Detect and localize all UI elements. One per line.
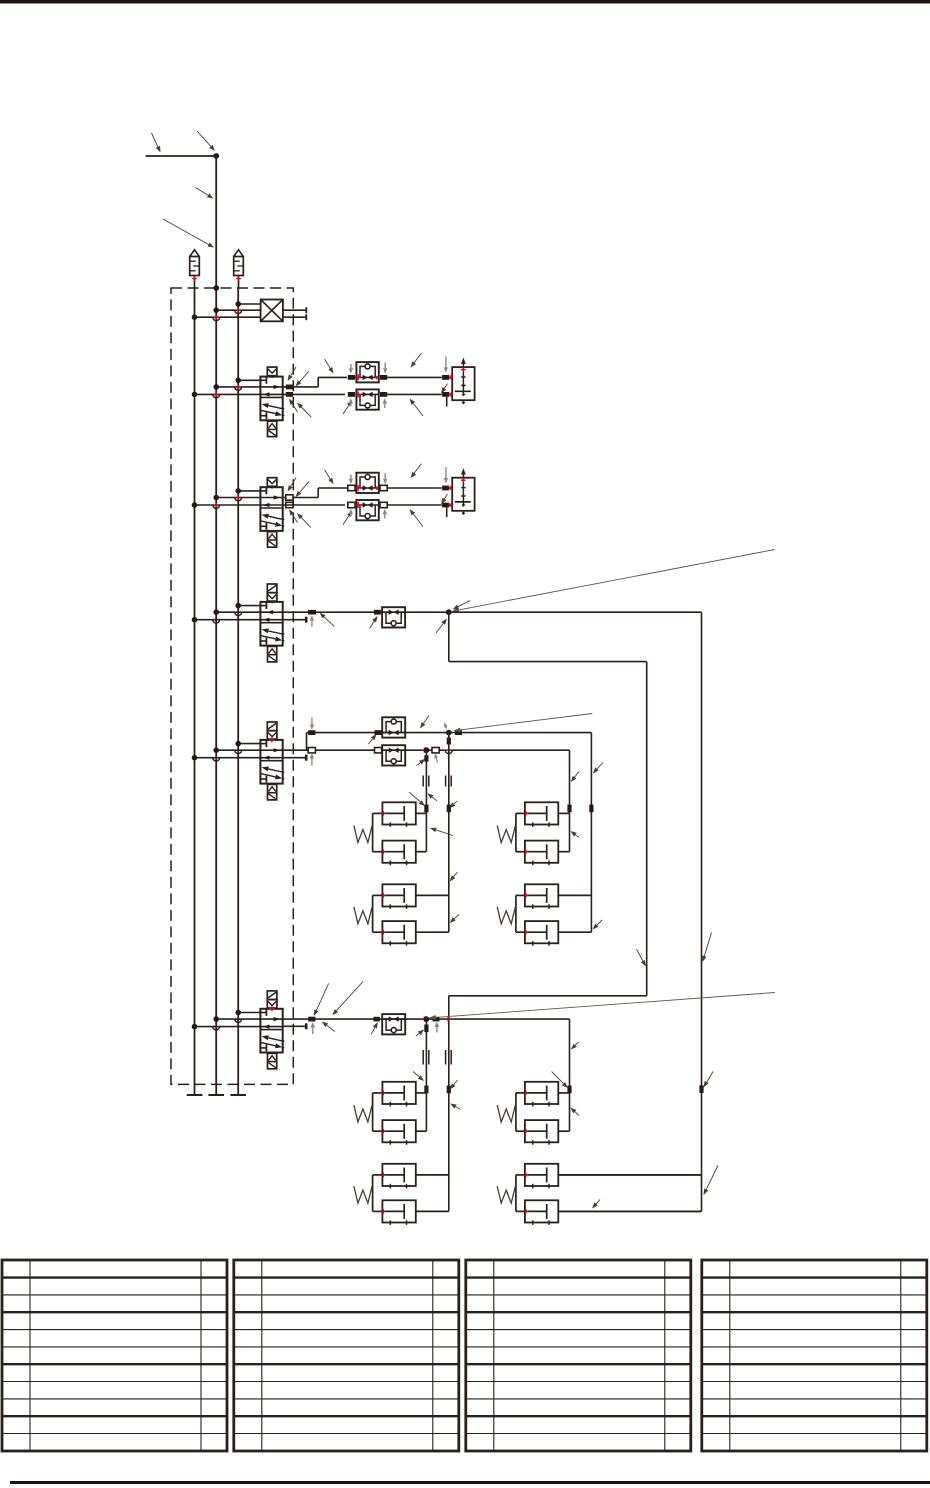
leader arrows row 1 rv [325,353,448,416]
wire xC down lowerset [569,1019,571,1131]
bars on verticals upperset [424,805,593,813]
port bar row4 bottom [432,748,439,753]
brake cylinder pair G4 [516,884,592,945]
wire valve V1 outlet lower [283,393,345,395]
control valve V3 [260,584,284,662]
leader arrows right rail [637,933,719,1196]
wire xC down upperset [569,750,571,851]
blocked line V5 [283,1023,307,1029]
port bars RV2a [348,485,387,490]
brake cylinder pair G5 [373,1082,427,1145]
node row3 junction [446,609,452,615]
leader arrows row 2 valve ports [288,478,312,528]
control valve V2 [260,478,284,548]
wire RV1a to cylinder [387,376,442,378]
node dashed-top junction [213,285,219,291]
tank T1 [187,1094,203,1096]
leader arrows lowerset misc [413,1072,600,1209]
control valve V1 [260,367,284,437]
spring W G5 [354,1105,372,1122]
page bottom rule [10,1481,930,1484]
port bars RV1a [348,375,387,380]
port bar CB3 inlet [374,610,381,615]
table 2 [234,1260,459,1451]
port bar cyl1 upper [442,375,449,380]
wire row3 branch down [448,612,450,661]
port bar cyl1 lower [442,392,449,397]
port bar RV4a inlet [375,730,382,735]
blocked line V3 [283,617,307,623]
wire RV2b to cylinder [387,504,442,506]
wire valve V2 outlet lower [283,504,345,506]
leader arrows wgroups upper [409,723,602,930]
wire xA down lowerset [425,1019,427,1131]
port bar CB5 inlet [374,1017,380,1022]
cylinder CYL2 [449,468,474,515]
wire inputs row 3 [192,603,261,623]
control valve V4 [260,722,284,800]
port bar V4 top [308,730,315,735]
leader arrows row3 junction [436,601,470,634]
control valve V5 [260,991,284,1069]
slow return valve RV1a [355,362,379,382]
brake cylinder pair G8 [516,1164,702,1225]
bar xA below junction [424,755,428,1032]
wire lowerright to xF lower [558,1210,701,1212]
wire valve V4 outlets [283,733,592,754]
slow return valve RV4a [382,717,405,737]
wire main supply vertical [215,156,217,1095]
callout leader row3 [452,550,775,613]
wire right main down xF [701,612,703,1211]
port bar row4 top [446,730,462,752]
tank T3 [230,1094,246,1096]
page top bar [0,0,930,4]
wire RV1b to cylinder [387,393,442,395]
wire row3 branch right [449,661,647,663]
spring W G1 [354,826,372,843]
port bar cyl2 lower [442,503,449,508]
slow return valve RV1b [356,389,378,409]
callout leader row4 [454,714,593,733]
wire inputs row 1 [192,378,261,398]
filter F1 [190,250,200,288]
check valve CB5 [382,1014,405,1034]
wire xA down upperset [425,750,427,851]
leader arrow a4 [163,219,214,248]
solenoid valve SV [192,300,307,322]
brake cylinder pair G6 [373,1164,449,1225]
wire lowerright to xF upper [558,1174,701,1176]
leader arrows row4 [310,716,603,783]
leader arrow a1 [152,133,161,153]
wire valve V1 outlet upper [283,377,347,396]
spring W G2 [354,907,372,924]
brake cylinder pair G2 [373,884,449,945]
wire valve V2 outlet upper [283,488,347,508]
wire inputs row 5 [192,1010,261,1030]
node supply junction [213,153,219,159]
table 4 [702,1260,927,1451]
wire inputs row 4 [192,741,261,761]
slow return valve RV2b [356,500,378,520]
spring W G7 [497,1105,515,1122]
gray pointers row 2 [349,467,449,518]
port bars RV1b [348,392,387,397]
drain stub cyl2 [446,508,448,518]
wire row3 to right top [449,611,702,613]
wire xE to xB [449,995,647,997]
brake cylinder pair G7 [516,1082,570,1145]
leader arrows row 1 valve ports [288,367,312,417]
callout leader row5 [429,993,775,1020]
wire RV2a to cylinder [387,487,442,489]
port bars RV2b [348,502,387,507]
brake cylinder pair G1 [373,802,427,865]
leader arrow a3 [196,188,214,199]
node row4 top junction [446,730,452,736]
gray pointers row 1 [349,357,449,409]
red marks row 1 [214,367,466,397]
port bar V4 bottom [308,748,315,753]
leader arrows row5 [311,982,579,1089]
wire pilot line left [194,288,196,1095]
spring W G8 [497,1186,515,1203]
node row4 bottom junction [422,747,430,753]
red marks row 2 [214,478,466,508]
wire valve V5 outlet [283,1018,570,1020]
spring W G3 [497,826,515,843]
leader arrow a2 [197,131,215,151]
tank T2 [208,1094,224,1096]
hose break marks upperset [423,776,451,787]
slow return valve RV2a [355,473,379,493]
drain stub cyl1 [446,397,448,407]
table 1 [2,1260,227,1451]
leader arrows row 2 rv [325,464,448,527]
wire xE down [646,662,648,996]
wire xB down upperset [448,733,450,933]
hose break marks lowerset [423,1050,451,1065]
valve block dashed enclosure [171,288,293,1084]
bars on verticals lowerset [424,1085,703,1093]
wire valve V3 outlet [283,611,449,613]
check valve CB3 [382,607,405,627]
port bar row5 [433,1017,440,1022]
spring W G4 [497,907,515,924]
leader arrows row3 ports [310,613,378,629]
port bar RV4b inlet [375,748,382,753]
slow return valve RV4b [382,745,405,765]
port bar V3 outlet [308,610,316,615]
wire pump supply horizontal [146,155,217,157]
wire inputs row 2 [192,488,261,508]
brake cylinder pair G3 [516,802,570,865]
table 3 [466,1260,691,1451]
port bar cyl2 upper [442,486,449,491]
wire pilot line right [237,288,239,1095]
filter F2 [234,250,244,288]
port bar V5 [308,1017,315,1022]
cylinder CYL1 [449,358,474,405]
wire xD down upperset [590,733,592,933]
blocked line V4 [283,755,307,761]
node row5 junction [422,1016,450,1022]
wire xB down lower [448,996,450,1212]
spring W G6 [354,1186,372,1203]
